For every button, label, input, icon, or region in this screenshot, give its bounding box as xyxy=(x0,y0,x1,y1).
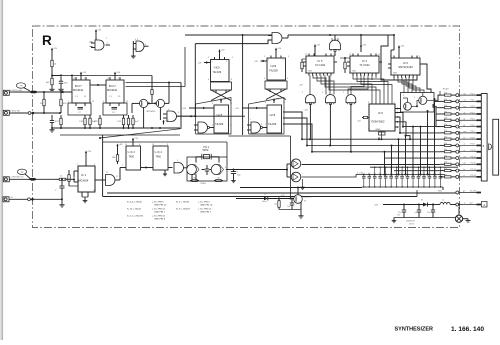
svg-text:7400: 7400 xyxy=(129,156,135,159)
box around output transistors xyxy=(401,93,435,113)
svg-text:4.4332.09 kHz: 4.4332.09 kHz xyxy=(10,90,22,92)
svg-text:R: R xyxy=(42,33,52,48)
Q5 emitter ground xyxy=(300,202,302,210)
svg-text:47k: 47k xyxy=(444,99,447,101)
svg-text:9: 9 xyxy=(226,61,227,63)
driver gate U19b xyxy=(291,172,301,182)
svg-text:1k: 1k xyxy=(60,175,62,177)
inverter gate U16a xyxy=(306,95,316,103)
svg-text:10n: 10n xyxy=(373,173,376,175)
svg-text:GND: GND xyxy=(438,191,443,193)
svg-text:+5V: +5V xyxy=(275,99,279,101)
svg-text:GND PIN 8: GND PIN 8 xyxy=(154,218,166,220)
svg-text:2: 2 xyxy=(212,125,213,127)
svg-text:2: 2 xyxy=(461,134,462,136)
svg-text:GND PIN 7: GND PIN 7 xyxy=(154,211,166,213)
svg-text:1: 1 xyxy=(394,102,395,104)
svg-text:14: 14 xyxy=(152,144,154,146)
long wire lower xyxy=(107,192,456,194)
test point oval TP1 xyxy=(16,83,25,88)
row 7 extra stub xyxy=(378,137,380,139)
svg-text:+5V: +5V xyxy=(254,61,258,63)
svg-text:10n: 10n xyxy=(395,173,398,175)
svg-text:MC4044: MC4044 xyxy=(107,88,118,92)
input connector X3 xyxy=(3,177,9,182)
svg-text:7400: 7400 xyxy=(156,156,162,159)
decoupling capacitor row xyxy=(370,166,458,168)
output row 7 node xyxy=(456,131,459,134)
svg-text:1: 1 xyxy=(302,92,303,94)
capacitor C30 xyxy=(61,179,63,186)
svg-text:5: 5 xyxy=(212,61,213,63)
svg-text:+5V: +5V xyxy=(316,45,320,47)
gate IC2b box 7400 xyxy=(153,146,168,170)
svg-text:SN74LS163: SN74LS163 xyxy=(398,65,413,69)
svg-text:4: 4 xyxy=(265,102,266,104)
svg-text:10n: 10n xyxy=(422,173,425,175)
svg-text:12: 12 xyxy=(230,103,232,105)
svg-text:2: 2 xyxy=(290,155,291,157)
svg-text:3: 3 xyxy=(230,125,231,127)
svg-text:2: 2 xyxy=(461,178,462,180)
svg-text:IC 4: IC 4 xyxy=(362,59,367,63)
long wire collector rail xyxy=(240,187,362,189)
svg-text:74S04: 74S04 xyxy=(200,183,207,185)
svg-text:12: 12 xyxy=(283,102,285,104)
wires from pair down xyxy=(143,108,145,129)
output row 5 node xyxy=(456,119,459,122)
svg-text:SYNTHESIZER: SYNTHESIZER xyxy=(395,327,434,333)
svg-text:MPS6523: MPS6523 xyxy=(147,111,157,113)
inverter gate U16b xyxy=(325,95,335,103)
svg-text:14: 14 xyxy=(107,78,109,80)
svg-text:+5V: +5V xyxy=(374,205,378,207)
svg-text:9: 9 xyxy=(168,109,169,111)
svg-text:12: 12 xyxy=(106,172,108,174)
ground xyxy=(51,88,53,90)
filter resistor ladder xyxy=(60,115,62,118)
gate U15 above counters xyxy=(330,40,341,49)
flip-flop IC5a 74LS09 xyxy=(211,60,230,82)
wire pair collector riser xyxy=(165,102,170,104)
transistor Q5 BC237B xyxy=(294,195,303,204)
svg-text:+5V: +5V xyxy=(82,72,86,74)
IC outputs to FF verticals xyxy=(126,82,182,84)
gate U12b top-left xyxy=(136,41,144,52)
svg-text:2: 2 xyxy=(103,101,104,103)
svg-text:+5V: +5V xyxy=(53,48,57,50)
svg-text:GND: GND xyxy=(352,71,357,73)
test point oval TP2 xyxy=(17,169,26,174)
svg-text:5: 5 xyxy=(208,57,209,59)
svg-text:IC 1: IC 1 xyxy=(81,173,87,177)
output row 2 resistor 47k xyxy=(440,100,445,102)
svg-text:Weiss: Weiss xyxy=(262,201,267,203)
svg-text:47k: 47k xyxy=(444,168,447,170)
svg-text:2: 2 xyxy=(461,103,462,105)
bus grid junction dots xyxy=(384,174,386,176)
connector bar P2 xyxy=(481,94,487,182)
svg-text:47k: 47k xyxy=(444,143,447,145)
resistor R22 xyxy=(117,152,119,155)
output row 11 resistor 47k xyxy=(440,157,445,159)
cross-coupling wires X right xyxy=(266,89,286,100)
svg-text:74LS09: 74LS09 xyxy=(213,71,222,74)
resistor R20 between counters xyxy=(344,58,346,62)
transistor Q3 in box xyxy=(404,102,412,110)
svg-text:C60/25uH: C60/25uH xyxy=(406,221,415,223)
gate IC2a box 7400 xyxy=(126,146,141,170)
svg-text:13: 13 xyxy=(92,101,94,103)
svg-text:+5V: +5V xyxy=(222,99,226,101)
counter IC3 74LS163 xyxy=(391,58,420,75)
svg-text:GND PIN 7: GND PIN 7 xyxy=(200,211,212,213)
gate U18 buffer xyxy=(174,163,184,174)
oscillator box xyxy=(187,157,227,181)
svg-text:2: 2 xyxy=(461,109,462,111)
flip-flop sub box a xyxy=(211,82,232,90)
svg-text:P2.11: P2.11 xyxy=(471,156,477,158)
output row 10 node xyxy=(456,150,459,153)
svg-text:4: 4 xyxy=(84,78,85,80)
driver outputs xyxy=(302,163,440,165)
svg-text:1. 166. 140: 1. 166. 140 xyxy=(451,326,484,333)
svg-text:L1: L1 xyxy=(442,200,444,202)
svg-text:11: 11 xyxy=(305,54,307,56)
capacitor C31 xyxy=(291,199,293,204)
svg-text:47k: 47k xyxy=(444,137,447,139)
filter capacitor C41 xyxy=(418,205,420,211)
svg-text:7: 7 xyxy=(378,73,379,75)
resistor R10 10k xyxy=(151,88,153,90)
svg-text:7: 7 xyxy=(333,73,334,75)
svg-text:10n: 10n xyxy=(406,173,409,175)
svg-text:R+5V: R+5V xyxy=(443,89,449,91)
resistor R1 +5V pullup xyxy=(51,49,53,53)
gate U12a top-left xyxy=(95,31,97,35)
output row 8 resistor 47k xyxy=(440,138,445,140)
svg-text:¼IC5: ¼IC5 xyxy=(270,114,276,117)
svg-text:8: 8 xyxy=(123,83,124,85)
feed wires for rows 1-6 xyxy=(434,95,440,100)
svg-text:10n: 10n xyxy=(362,173,365,175)
transistor Q4 in box xyxy=(419,96,427,104)
input connector X4 xyxy=(3,197,9,202)
svg-text:+5V: +5V xyxy=(119,144,123,146)
output row 2 node xyxy=(456,100,459,103)
osc coupling cap xyxy=(206,165,208,169)
svg-text:10n: 10n xyxy=(439,173,442,175)
svg-text:P2.14: P2.14 xyxy=(471,175,477,177)
svg-text:P2.13: P2.13 xyxy=(471,169,477,171)
svg-text:7: 7 xyxy=(77,190,78,192)
svg-text:GND PIN 10: GND PIN 10 xyxy=(154,204,167,206)
svg-text:14: 14 xyxy=(73,78,75,80)
svg-text:2: 2 xyxy=(461,121,462,123)
top bus to counters xyxy=(288,34,394,36)
svg-text:= Vcc PIN 14: = Vcc PIN 14 xyxy=(152,209,166,211)
svg-text:+5V: +5V xyxy=(221,50,225,52)
svg-text:10n: 10n xyxy=(401,173,404,175)
cross-coupling wires X left xyxy=(211,90,231,101)
wire bus into lower cells xyxy=(177,115,196,117)
svg-text:1M: 1M xyxy=(112,157,115,159)
resistor R31 xyxy=(278,199,280,201)
svg-text:2: 2 xyxy=(461,153,462,155)
wire second input bus xyxy=(195,40,272,44)
wire slanted to counter region xyxy=(100,129,181,138)
gate U20 xyxy=(106,175,115,186)
svg-text:6: 6 xyxy=(419,75,420,77)
IC1 VCO MC4024 xyxy=(78,166,95,192)
loop filter box for IC8 xyxy=(103,103,127,115)
svg-text:47k: 47k xyxy=(444,149,447,151)
svg-text:9: 9 xyxy=(283,60,284,62)
svg-text:IC 0: IC 0 xyxy=(403,61,408,65)
svg-text:1: 1 xyxy=(122,165,123,167)
driver ground xyxy=(302,179,304,186)
output row 10 resistor 47k xyxy=(440,151,445,153)
resistor R21 left of IC5 xyxy=(301,59,303,62)
svg-text:GND: GND xyxy=(393,73,398,75)
filter capacitor C40 xyxy=(403,205,405,211)
ROM right pins xyxy=(395,108,398,110)
filter ground rail xyxy=(394,217,459,219)
output row 13 resistor 47k xyxy=(440,170,445,172)
svg-text:GND PIN 10: GND PIN 10 xyxy=(200,204,213,206)
svg-text:6: 6 xyxy=(225,167,226,169)
svg-text:XTL 1: XTL 1 xyxy=(203,147,210,149)
svg-text:11: 11 xyxy=(349,54,351,56)
gate output drops xyxy=(309,104,311,139)
svg-text:2: 2 xyxy=(265,124,266,126)
svg-text:10n: 10n xyxy=(379,173,382,175)
filter capacitor C42 xyxy=(432,205,434,211)
chassis ground xyxy=(463,218,468,220)
svg-text:5: 5 xyxy=(264,56,265,58)
wire ROM pin cascade 1 xyxy=(398,108,402,110)
page left edge shading xyxy=(0,0,3,340)
svg-text:GND: GND xyxy=(308,71,313,73)
wires in transistor box xyxy=(411,100,418,106)
svg-text:4: 4 xyxy=(290,169,291,171)
svg-text:10n: 10n xyxy=(428,173,431,175)
svg-text:6: 6 xyxy=(264,78,265,80)
svg-text:4: 4 xyxy=(118,78,119,80)
svg-text:3: 3 xyxy=(305,73,306,75)
Q5 collector wire xyxy=(297,188,299,195)
svg-text:10n: 10n xyxy=(384,173,387,175)
svg-text:4.38.02 kHz: 4.38.02 kHz xyxy=(10,111,20,113)
svg-text:13: 13 xyxy=(126,101,128,103)
vertical feeders from FF area xyxy=(283,112,302,139)
svg-text:74LS09: 74LS09 xyxy=(269,69,278,72)
diode D2 xyxy=(423,203,428,207)
ground bus wire xyxy=(52,127,180,129)
varactor transistor pair Q2 xyxy=(156,99,164,107)
svg-text:¼IC5: ¼IC5 xyxy=(214,67,221,70)
svg-text:4,7k: 4,7k xyxy=(281,195,284,197)
resistor R3 1k xyxy=(43,92,45,99)
output row 14 resistor 47k xyxy=(440,176,445,178)
svg-text:= Vcc PIN 14: = Vcc PIN 14 xyxy=(198,209,212,211)
chassis mount symbol xyxy=(455,215,462,222)
svg-text:14: 14 xyxy=(125,144,127,146)
svg-text:8: 8 xyxy=(368,102,369,104)
svg-text:5MHz: 5MHz xyxy=(203,150,210,152)
svg-text:10n: 10n xyxy=(433,173,436,175)
output row 4 node xyxy=(456,112,459,115)
output row 13 node xyxy=(456,169,459,172)
resistor pair at IC1 input xyxy=(68,170,70,175)
svg-text:5: 5 xyxy=(77,164,78,166)
output row 6 node xyxy=(456,125,459,128)
svg-text:B IC7: B IC7 xyxy=(109,84,116,88)
inductor L1 xyxy=(440,202,450,204)
svg-text:+5V: +5V xyxy=(277,48,281,50)
svg-text:8: 8 xyxy=(287,78,288,80)
svg-text:IC 3,4 = 74C00: IC 3,4 = 74C00 xyxy=(127,202,143,204)
svg-text:47k: 47k xyxy=(444,162,447,164)
wire input 4 xyxy=(9,198,62,200)
svg-text:n47: n47 xyxy=(415,212,418,214)
wire vco control xyxy=(132,102,140,104)
svg-text:47k: 47k xyxy=(444,111,447,113)
output row 12 node xyxy=(456,163,459,166)
flip-flop cell lower left with gate xyxy=(196,98,232,135)
svg-text:10n: 10n xyxy=(390,173,393,175)
svg-text:9: 9 xyxy=(390,56,391,58)
svg-text:= Vcc PIN 16: = Vcc PIN 16 xyxy=(152,216,166,218)
wire ROM pin cascade 4 xyxy=(398,122,411,139)
svg-text:74 C192: 74 C192 xyxy=(315,63,326,67)
svg-text:BC237B: BC237B xyxy=(304,197,312,199)
svg-text:4: 4 xyxy=(212,103,213,105)
svg-text:2: 2 xyxy=(461,96,462,98)
svg-text:12: 12 xyxy=(368,129,370,131)
phase comparator IC7 MC4044 xyxy=(72,80,90,103)
output row 11 node xyxy=(456,157,459,160)
svg-text:2: 2 xyxy=(403,95,404,97)
svg-text:8: 8 xyxy=(167,144,168,146)
wire FF to transistor base xyxy=(229,135,291,137)
svg-text:gn: gn xyxy=(463,191,465,193)
svg-text:3: 3 xyxy=(322,92,323,94)
svg-text:GND: GND xyxy=(376,129,381,131)
svg-text:¼IC5: ¼IC5 xyxy=(217,114,223,117)
svg-text:14: 14 xyxy=(333,54,335,56)
svg-text:+5V: +5V xyxy=(362,45,366,47)
capacitor row ground rail xyxy=(362,186,443,188)
wire ROM pin cascade 2 xyxy=(398,113,404,127)
wire top bus to gate U14 xyxy=(185,34,272,36)
svg-text:S1: S1 xyxy=(421,200,423,202)
wire input to IC7 pin xyxy=(14,91,72,93)
svg-text:+5V: +5V xyxy=(182,108,186,110)
svg-text:6: 6 xyxy=(208,79,209,81)
svg-text:9: 9 xyxy=(94,164,95,166)
svg-text:3: 3 xyxy=(261,124,262,126)
counter IC5 74C192 xyxy=(306,56,334,73)
svg-text:= Vcc PIN 5: = Vcc PIN 5 xyxy=(152,202,164,204)
svg-text:6: 6 xyxy=(414,97,415,99)
output row 3 resistor 47k xyxy=(440,107,445,109)
output row 7 resistor 47k xyxy=(440,132,445,134)
flip-flop IC5b 74LS09 xyxy=(267,58,286,80)
svg-text:+5V: +5V xyxy=(235,108,239,110)
osc inverter A xyxy=(187,165,197,175)
svg-text:gn: gn xyxy=(464,112,466,114)
output row 4 resistor 47k xyxy=(440,113,445,115)
driver gate U19a xyxy=(286,164,288,177)
svg-text:¼ IC 2: ¼ IC 2 xyxy=(155,151,163,154)
osc output cap C20 xyxy=(226,169,234,171)
svg-text:ws: ws xyxy=(464,156,466,158)
svg-text:2: 2 xyxy=(461,159,462,161)
svg-text:ROM 9002: ROM 9002 xyxy=(372,120,386,124)
ROM bottom pin xyxy=(381,131,383,139)
svg-text:74LS09: 74LS09 xyxy=(215,123,224,126)
svg-text:2k2: 2k2 xyxy=(274,204,277,206)
svg-text:5: 5 xyxy=(268,60,269,62)
svg-text:3: 3 xyxy=(177,160,178,162)
svg-text:+5V: +5V xyxy=(400,46,404,48)
input connector X2 xyxy=(3,110,9,115)
resistor R2 to ground xyxy=(51,76,53,79)
svg-text:9: 9 xyxy=(288,56,289,58)
svg-text:+5V: +5V xyxy=(198,63,202,65)
svg-text:K7: K7 xyxy=(304,201,306,203)
svg-text:2: 2 xyxy=(419,56,420,58)
gate U13 output to counters xyxy=(167,111,177,122)
svg-text:2: 2 xyxy=(68,101,69,103)
wire input 2 xyxy=(14,112,60,114)
svg-text:47k: 47k xyxy=(444,130,447,132)
inverter gate U16c xyxy=(346,95,356,103)
output row 3 node xyxy=(456,106,459,109)
svg-text:47k: 47k xyxy=(444,124,447,126)
svg-text:8: 8 xyxy=(139,144,140,146)
svg-text:14: 14 xyxy=(378,54,380,56)
dash-dot board border xyxy=(33,26,460,228)
osc output wire xyxy=(234,169,288,171)
svg-text:2: 2 xyxy=(461,165,462,167)
svg-text:MC4044: MC4044 xyxy=(73,88,84,92)
output row 1 resistor 47k xyxy=(440,94,445,96)
svg-text:+5V: +5V xyxy=(116,72,120,74)
connector pointer D xyxy=(489,144,492,150)
svg-text:22u: 22u xyxy=(427,212,430,214)
resistor R30 series xyxy=(55,178,59,180)
svg-text:P2.12: P2.12 xyxy=(471,163,477,165)
output row 8 node xyxy=(456,138,459,141)
svg-text:¼IC5: ¼IC5 xyxy=(270,65,277,68)
wire junction xyxy=(99,137,101,139)
svg-text:+5V: +5V xyxy=(97,30,101,32)
counter IC4 74C192 xyxy=(350,56,379,73)
svg-text:74 C192: 74 C192 xyxy=(359,63,370,67)
flip-flop cell lower right with gate xyxy=(249,98,285,135)
output row 14 node xyxy=(456,175,459,178)
svg-text:8: 8 xyxy=(89,83,90,85)
svg-text:47k: 47k xyxy=(444,105,447,107)
svg-text:1: 1 xyxy=(96,38,97,40)
svg-text:9: 9 xyxy=(232,57,233,59)
connector bar second xyxy=(493,119,499,175)
long vertical wire to FF cell 2 xyxy=(242,35,244,135)
wire divider box top xyxy=(103,141,227,143)
svg-text:IC 1,2 = 74C192: IC 1,2 = 74C192 xyxy=(127,216,144,218)
